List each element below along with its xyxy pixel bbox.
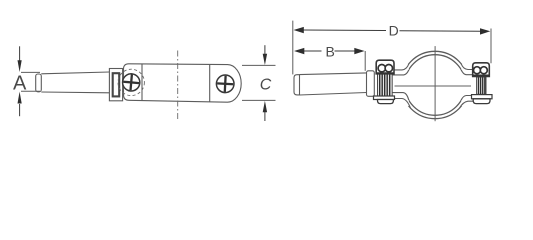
svg-text:B: B: [326, 43, 335, 59]
svg-text:D: D: [389, 22, 399, 38]
svg-text:A: A: [13, 72, 27, 94]
svg-text:C: C: [260, 77, 272, 94]
